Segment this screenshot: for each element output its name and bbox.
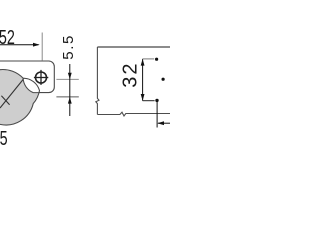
dimension 52 line with right arrow <box>0 43 40 47</box>
door panel bottom edge with break <box>97 112 170 116</box>
extension line at screw hole centre <box>41 33 43 61</box>
screw hole dot bottom <box>155 99 158 102</box>
elbow connector to top hole <box>143 58 155 60</box>
hinge arm wedge (white cut-out over cup) <box>23 78 39 92</box>
cup centre cross stroke \ <box>1 96 9 105</box>
screw hole dot top <box>155 58 158 61</box>
elbow connector to bottom hole <box>143 100 155 102</box>
cropped dimension line with left arrow at centreline <box>157 121 170 125</box>
reference line lower (cup axis) <box>56 96 78 98</box>
dimension 5.5 vertical line with outside arrows <box>68 64 72 116</box>
cup centre cross stroke / (diagonal radius line) <box>0 79 24 108</box>
hole centreline down through door edge <box>156 102 158 128</box>
svg-text:5.5: 5.5 <box>60 34 77 60</box>
hinge plate (mounting flange, rounded rect, cropped at left) <box>0 61 54 93</box>
door panel left edge with break <box>96 47 99 115</box>
screw hole symbol (circle with cross) <box>34 70 48 85</box>
svg-text:32: 32 <box>120 62 142 88</box>
screw hole dot middle (offset) <box>162 78 165 81</box>
dimension 32 vertical line with outward arrows <box>141 59 145 101</box>
svg-text:35: 35 <box>0 126 8 149</box>
door panel top edge <box>97 46 170 48</box>
hinge cup (gray filled blob, cropped at left image edge) <box>0 70 39 125</box>
reference line upper (hole axis) <box>56 78 78 80</box>
